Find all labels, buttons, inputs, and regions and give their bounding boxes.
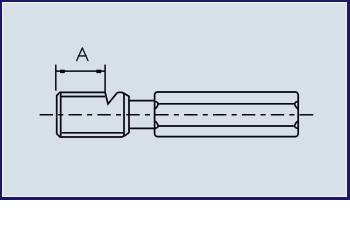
hex rod outline (155, 92, 299, 137)
hex flat bottom (158, 125, 295, 127)
hex chamfer wedge top-left (155, 101, 158, 108)
hex flat top (158, 103, 295, 105)
chamfer line (60, 93, 62, 137)
neck top (129, 100, 155, 102)
hex chamfer wedge top-right (295, 101, 298, 108)
extension line right (104, 65, 106, 92)
thread root top (61, 96, 105, 98)
dimension line (56, 70, 105, 72)
label A (77, 48, 88, 61)
thread root bottom (61, 132, 124, 134)
arrowhead right (96, 70, 101, 73)
stud body outline (57, 92, 124, 137)
collar (123, 93, 129, 136)
extension line left (55, 65, 57, 91)
hex chamfer wedge bottom-right (295, 121, 298, 128)
neck bottom (129, 127, 155, 129)
hex chamfer wedge bottom-left (155, 121, 158, 128)
centerline (40, 114, 297, 116)
arrowhead left (60, 70, 65, 73)
